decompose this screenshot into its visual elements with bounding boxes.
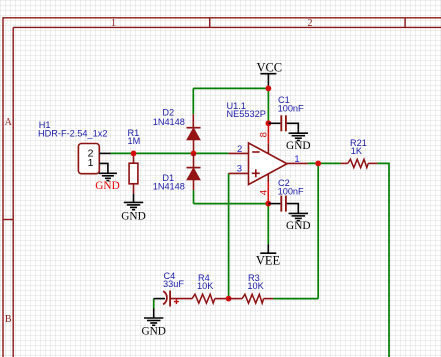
wire VCC horizontal — [193, 87, 268, 89]
svg-text:2: 2 — [237, 144, 242, 155]
svg-text:GND: GND — [121, 211, 145, 223]
junction output — [315, 161, 321, 167]
op-amp pin 4 — [259, 174, 270, 204]
capacitor C4 — [154, 271, 185, 307]
svg-text:A: A — [5, 117, 13, 128]
capacitor C1 — [268, 95, 304, 131]
svg-text:GND: GND — [286, 220, 310, 232]
svg-text:100nF: 100nF — [278, 186, 304, 196]
power VEE — [256, 244, 281, 267]
svg-text:8: 8 — [259, 132, 270, 137]
svg-text:1K: 1K — [351, 146, 363, 156]
svg-text:10K: 10K — [247, 281, 264, 291]
H1 pin 1 — [88, 157, 108, 173]
svg-text:GND: GND — [141, 325, 165, 337]
svg-text:GND: GND — [95, 180, 119, 192]
diode D1 — [153, 153, 201, 191]
svg-text:NE5532P: NE5532P — [227, 109, 266, 119]
junction pin 4 — [265, 201, 271, 207]
junction R4 R3 — [226, 296, 232, 302]
junction C1 tap — [266, 120, 272, 126]
wire VEE vertical — [267, 204, 269, 245]
power VCC — [256, 60, 282, 88]
ground under C2 — [286, 204, 310, 232]
wire output vertical — [317, 163, 319, 298]
junction diodes — [191, 151, 197, 157]
junction R1 top — [131, 151, 137, 157]
wire output left — [308, 162, 341, 164]
op-amp pin 1 output — [287, 154, 308, 165]
H1 pin 2 — [88, 148, 111, 160]
wire pin4 horizontal — [194, 203, 269, 205]
svg-text:D2: D2 — [162, 108, 174, 118]
svg-text:1N4148: 1N4148 — [153, 117, 185, 127]
wire D2 top vertical — [192, 88, 194, 114]
svg-text:1M: 1M — [128, 136, 141, 146]
svg-text:1: 1 — [111, 18, 116, 29]
op-amp pin 2 — [229, 144, 249, 155]
svg-text:100nF: 100nF — [278, 104, 304, 114]
capacitor C2 — [268, 178, 304, 212]
ground under C4 — [141, 309, 165, 338]
resistor R21 — [341, 138, 378, 167]
wire pin3 vertical — [228, 173, 230, 298]
svg-text:GND: GND — [286, 140, 310, 152]
svg-text:HDR-F-2.54_1x2: HDR-F-2.54_1x2 — [38, 129, 107, 139]
wire net1 main horizontal — [111, 152, 229, 154]
svg-text:B: B — [5, 314, 12, 325]
svg-text:VEE: VEE — [256, 254, 281, 268]
svg-text:4: 4 — [259, 190, 270, 195]
wire R3 to output — [273, 298, 318, 300]
svg-text:2: 2 — [308, 18, 313, 29]
svg-text:3: 3 — [237, 164, 242, 175]
diode D2 — [153, 108, 201, 154]
wire D1 bottom vertical — [193, 190, 195, 203]
op-amp pin 3 — [229, 164, 249, 175]
svg-text:10K: 10K — [197, 281, 214, 291]
wire R21 right — [377, 163, 389, 357]
svg-text:33uF: 33uF — [163, 279, 184, 289]
wire VCC vertical — [267, 88, 269, 123]
resistor R1 — [128, 128, 141, 193]
op-amp pin 8 — [259, 123, 270, 153]
svg-text:1: 1 — [88, 157, 94, 169]
svg-text:1: 1 — [294, 154, 299, 165]
ground under R1 — [121, 194, 145, 223]
svg-text:VCC: VCC — [256, 60, 282, 74]
resistor R3 — [229, 273, 274, 303]
resistor R4 — [171, 273, 229, 303]
op-amp U1 — [227, 101, 288, 185]
connector H1 — [38, 120, 107, 174]
svg-text:1N4148: 1N4148 — [153, 182, 185, 192]
ground under H1 — [95, 173, 119, 192]
junction VCC — [266, 86, 272, 92]
ground under C1 — [286, 123, 310, 152]
wire C4 to GND — [153, 299, 155, 309]
